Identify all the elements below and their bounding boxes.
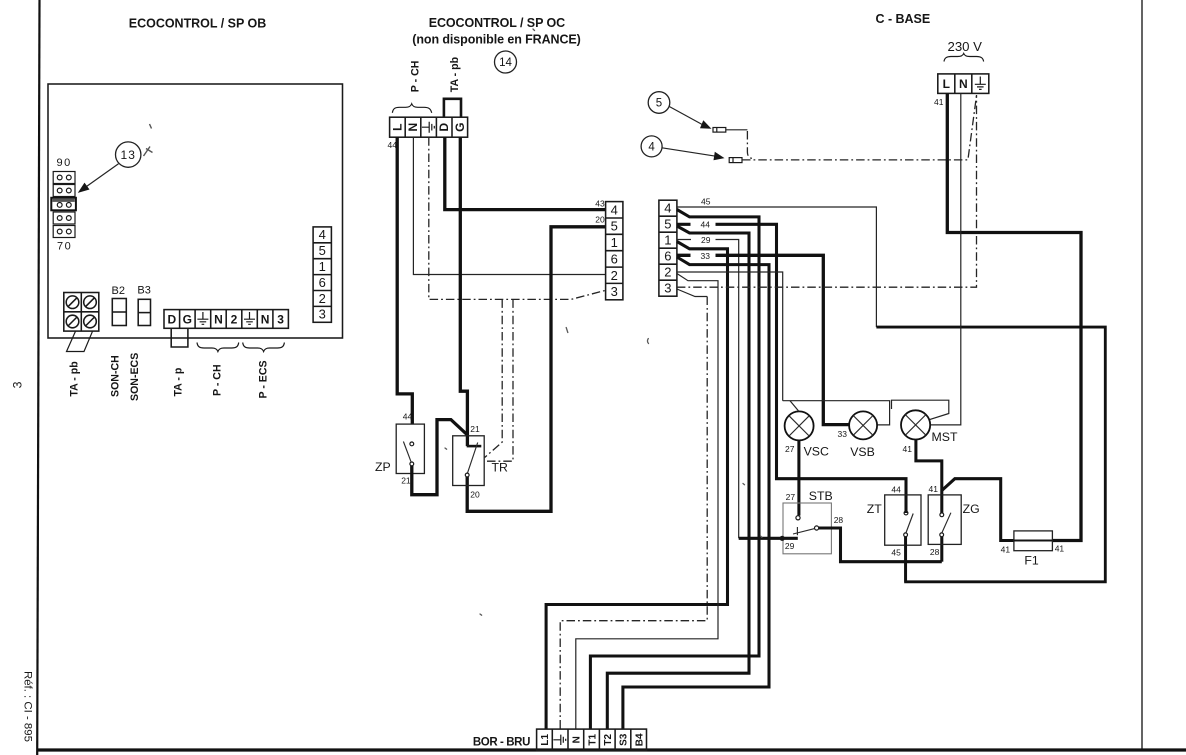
- faston 5 lead: [726, 129, 748, 131]
- page right border: [1141, 0, 1143, 750]
- svg-text:F1: F1: [1024, 554, 1039, 568]
- svg-text:90: 90: [57, 157, 72, 169]
- svg-text:MST: MST: [932, 430, 958, 444]
- TR switch box: [453, 436, 485, 486]
- scan specks: [445, 29, 762, 615]
- svg-text:28: 28: [930, 547, 940, 557]
- svg-text:1: 1: [664, 233, 671, 248]
- earth symbol 230V cell: [975, 77, 986, 90]
- svg-text:ZG: ZG: [963, 502, 980, 516]
- svg-text:70: 70: [57, 241, 72, 253]
- svg-text:SON-ECS: SON-ECS: [129, 353, 141, 401]
- brace P-CH: [197, 343, 239, 352]
- brace P-ECS: [243, 343, 285, 352]
- svg-text:P - ECS: P - ECS: [257, 360, 269, 398]
- svg-text:Réf. : CI - 895: Réf. : CI - 895: [22, 671, 34, 742]
- svg-text:29: 29: [785, 541, 795, 551]
- svg-text:3: 3: [319, 307, 326, 322]
- svg-text:TR: TR: [492, 461, 509, 475]
- svg-text:230 V: 230 V: [948, 39, 983, 54]
- wire L 230V to F1 right terminal: [947, 93, 1081, 540]
- svg-text:TA - pb: TA - pb: [69, 361, 81, 397]
- jumper block row 5: [53, 226, 75, 238]
- ZT bottom contact: [904, 533, 908, 537]
- BOR-BRU terminal strip: [537, 729, 647, 751]
- wire L from OC strip to ZP terminal 44: [397, 137, 412, 424]
- wire cell2 to VSC lamp: [677, 272, 783, 401]
- TA-pb screw terminal block: [64, 293, 99, 332]
- svg-text:N: N: [572, 736, 583, 743]
- wire N from OC strip to OC-left strip cell 2: [413, 137, 605, 274]
- B3 connector: [138, 299, 150, 325]
- svg-text:D: D: [167, 313, 176, 327]
- ZT top contact: [904, 511, 908, 515]
- MST bottom wire to ZG 41: [916, 440, 942, 514]
- svg-text:1: 1: [611, 235, 618, 250]
- svg-text:SON-CH: SON-CH: [109, 355, 121, 397]
- earth symbol in strip cell 6: [244, 312, 255, 324]
- svg-text:4: 4: [611, 202, 618, 217]
- callout circle 14: [495, 51, 517, 73]
- ZG bottom wire: [940, 537, 943, 562]
- callout circle 5: [648, 92, 670, 114]
- jumper block row 4: [53, 212, 75, 224]
- svg-text:L: L: [390, 124, 404, 131]
- TA-pb jumper box above D-G cells: [444, 99, 461, 117]
- svg-text:4: 4: [664, 201, 671, 216]
- callout 5 arrow: [669, 107, 711, 129]
- svg-text:45: 45: [891, 547, 901, 557]
- svg-text:20: 20: [595, 214, 605, 224]
- svg-text:6: 6: [319, 275, 326, 290]
- svg-text:P - CH: P - CH: [212, 364, 224, 396]
- terminal strip D G earth N 2 earth N 3: [164, 310, 288, 329]
- callout 4 arrow: [662, 148, 725, 160]
- faston connector 5: [713, 128, 726, 133]
- svg-text:STB: STB: [809, 489, 833, 503]
- STB blade contact 28: [815, 526, 819, 530]
- ZP contacts and blade: [403, 442, 413, 466]
- B2 connector: [112, 299, 126, 326]
- svg-text:6: 6: [611, 251, 618, 266]
- svg-text:29: 29: [701, 235, 711, 245]
- faston 4 dash-dot lead to 230V earth: [742, 93, 977, 159]
- svg-text:21: 21: [401, 476, 411, 486]
- svg-text:13: 13: [121, 148, 136, 162]
- VSC bottom wire to STB 27: [797, 440, 800, 515]
- svg-text:BOR - BRU: BOR - BRU: [473, 737, 531, 749]
- STB blade: [793, 529, 815, 534]
- svg-text:S3: S3: [619, 733, 630, 746]
- svg-text:L1: L1: [540, 734, 551, 746]
- wire 20 : TR bottom to OC-left strip cell 5: [467, 227, 606, 512]
- svg-text:44: 44: [891, 484, 901, 494]
- dash-dot branch to TR actuator lower: [485, 299, 513, 461]
- wire G from OC strip down to TR terminal 21: [460, 137, 467, 446]
- wire 44 : cell5 to ZT terminal 44: [677, 224, 906, 513]
- ZT bottom wire down: [904, 537, 907, 582]
- lamp VSB: [849, 411, 877, 439]
- svg-text:VSC: VSC: [804, 444, 829, 458]
- ZP bottom wire to TR top: [412, 420, 468, 495]
- OC-right connector strip 4 5 1 6 2 3: [659, 200, 677, 296]
- OC-left connector strip 4 5 1 6 2 3: [606, 202, 623, 300]
- wire D (43) from OC strip to OC-left strip cell 4: [445, 137, 606, 209]
- svg-text:L: L: [943, 77, 950, 91]
- svg-text:14: 14: [499, 57, 512, 69]
- 230V terminal strip L N earth: [938, 74, 989, 94]
- VSC top wire and link to VSB right: [783, 401, 890, 425]
- svg-text:6: 6: [664, 249, 671, 264]
- svg-text:P - CH: P - CH: [409, 61, 421, 93]
- svg-text:D: D: [437, 123, 451, 132]
- svg-text:43: 43: [595, 198, 605, 208]
- svg-text:5: 5: [656, 98, 662, 110]
- svg-text:N: N: [406, 123, 420, 132]
- ZG 41 branch to F1 left: [942, 479, 1014, 541]
- svg-text:TA - pb: TA - pb: [449, 56, 461, 92]
- svg-text:B4: B4: [634, 733, 645, 746]
- STB junction dot 29: [780, 536, 785, 541]
- pen mark artifact: [144, 124, 153, 156]
- ZP switch box: [396, 424, 424, 473]
- jumper block row 2: [53, 185, 75, 197]
- svg-text:41: 41: [934, 97, 944, 107]
- ZG top contact: [940, 513, 944, 517]
- svg-text:1: 1: [319, 259, 326, 274]
- svg-text:33: 33: [838, 429, 848, 439]
- ZG bottom contact: [940, 533, 944, 537]
- svg-text:B3: B3: [137, 285, 150, 297]
- dash-dot branch to TR actuator upper: [485, 299, 503, 457]
- svg-text:4: 4: [648, 142, 655, 154]
- svg-text:N: N: [261, 313, 270, 327]
- svg-text:2: 2: [611, 268, 618, 283]
- callout circle 13: [116, 142, 141, 167]
- svg-text:ZT: ZT: [867, 502, 883, 516]
- svg-text:ECOCONTROL / SP OB: ECOCONTROL / SP OB: [129, 17, 266, 31]
- ECOCONTROL SP OB panel box: [48, 84, 343, 338]
- STB thermal tick: [796, 527, 798, 535]
- svg-text:B2: B2: [112, 285, 125, 297]
- page bottom border: [37, 748, 1186, 751]
- svg-text:2: 2: [319, 291, 326, 306]
- wire cell4 to BOR-BRU T1: [590, 210, 759, 730]
- brace over 230V strip: [944, 54, 984, 62]
- svg-text:28: 28: [834, 515, 844, 525]
- svg-text:G: G: [183, 313, 192, 327]
- STB switch box: [783, 503, 831, 554]
- wire cell5 to BOR-BRU T2: [607, 226, 749, 729]
- TR blade and contact: [465, 443, 477, 477]
- wire earth dash-dot from OC strip to OC-left strip cell 3: [429, 137, 606, 299]
- svg-text:4: 4: [319, 227, 326, 242]
- svg-text:N: N: [214, 313, 223, 327]
- svg-text:5: 5: [611, 219, 618, 234]
- TA-pb wire mark (parallelogram): [67, 331, 93, 351]
- svg-text:TA - p: TA - p: [172, 367, 184, 396]
- svg-text:(non disponible en FRANCE): (non disponible en FRANCE): [412, 32, 581, 46]
- STB 28 wire to ZG 28: [819, 528, 942, 562]
- svg-text:21: 21: [470, 424, 480, 434]
- svg-text:27: 27: [785, 444, 795, 454]
- wire cell1 to BOR-BRU L1: [546, 242, 727, 730]
- earth symbol in strip cell 3: [197, 312, 208, 324]
- wire stub right of VSB to MST upper link: [892, 400, 949, 419]
- svg-text:G: G: [453, 123, 467, 132]
- jumper block row 1: [53, 172, 75, 184]
- svg-text:3: 3: [277, 313, 284, 327]
- svg-text:41: 41: [903, 444, 913, 454]
- svg-text:41: 41: [1001, 544, 1011, 554]
- wire 45 : cell4 thin to right, down, (bold) across to ZT 45: [677, 207, 877, 327]
- OB right connector strip 4 5 1 6 2 3: [313, 227, 331, 322]
- svg-text:5: 5: [664, 217, 671, 232]
- wire cell6 to BOR-BRU S3: [623, 257, 769, 729]
- ZG blade: [942, 513, 951, 533]
- svg-text:3: 3: [664, 281, 671, 296]
- svg-text:C - BASE: C - BASE: [876, 12, 931, 26]
- ZT blade: [906, 514, 913, 534]
- wire 33 : cell6 to VSB lamp: [677, 255, 849, 424]
- svg-text:3: 3: [11, 381, 25, 388]
- wire cell3 dash-dot to 230V earth: [677, 95, 977, 287]
- svg-text:33: 33: [701, 251, 711, 261]
- svg-text:44: 44: [403, 412, 413, 422]
- faston connector 4: [729, 158, 742, 163]
- wire cell2 to BOR-BRU N: [576, 274, 718, 730]
- OC terminal strip L N earth D G: [390, 117, 468, 137]
- svg-text:T1: T1: [587, 734, 598, 746]
- STB top contact 27: [796, 516, 800, 520]
- wire N 230V down to MST right: [930, 93, 961, 425]
- TA-p link below D-G: [171, 328, 188, 347]
- svg-text:41: 41: [929, 484, 939, 494]
- svg-text:5: 5: [319, 243, 326, 258]
- svg-text:VSB: VSB: [850, 445, 875, 459]
- brace over P-CH cells (up): [392, 104, 431, 113]
- wire cell3 to BOR-BRU earth: [677, 289, 707, 297]
- ZT switch box: [885, 495, 921, 545]
- svg-text:3: 3: [611, 284, 618, 299]
- wire 29 : cell1 to STB terminal 29: [677, 240, 739, 539]
- callout circle 4: [641, 136, 662, 157]
- lamp MST: [901, 410, 930, 439]
- callout 13 arrow: [78, 164, 119, 193]
- TR top contact bar: [467, 445, 482, 448]
- svg-text:27: 27: [786, 492, 796, 502]
- svg-text:ECOCONTROL / SP OC: ECOCONTROL / SP OC: [429, 16, 566, 30]
- fuse F1: [1014, 531, 1053, 551]
- svg-text:ZP: ZP: [375, 460, 391, 474]
- svg-text:2: 2: [231, 313, 238, 327]
- jumper block row 3 (selected, bold): [51, 198, 76, 211]
- svg-text:T2: T2: [603, 734, 614, 746]
- ZG switch box: [928, 495, 961, 545]
- svg-text:44: 44: [701, 219, 711, 229]
- svg-text:41: 41: [1055, 544, 1065, 554]
- wire labels 44 29 33 on lines: [691, 219, 716, 261]
- svg-text:2: 2: [664, 265, 671, 280]
- svg-text:20: 20: [470, 490, 480, 500]
- page left border: [37, 0, 39, 755]
- svg-text:N: N: [959, 77, 968, 91]
- lamp VSC: [785, 411, 814, 440]
- svg-text:45: 45: [701, 196, 711, 206]
